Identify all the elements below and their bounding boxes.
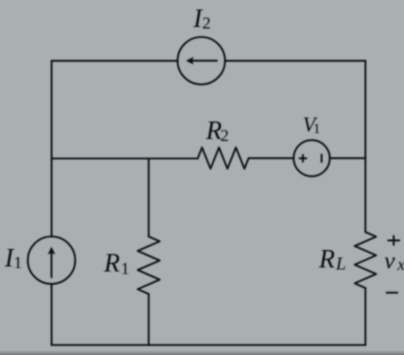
svg-text:1: 1 [121, 259, 129, 278]
wire middle-center segment [249, 157, 294, 159]
wire right upper segment [364, 61, 366, 232]
wire top-left segment [52, 60, 178, 62]
wire middle-right segment [330, 157, 366, 159]
wire top-right segment [225, 60, 365, 62]
label V1 [303, 113, 320, 138]
current source I1 [28, 237, 75, 284]
label I2 [192, 4, 210, 33]
wire bottom [52, 344, 366, 346]
resistor R2 [198, 148, 249, 169]
svg-text:v: v [384, 248, 395, 274]
svg-text:x: x [397, 255, 404, 274]
label R2 [205, 116, 229, 145]
voltage source V1 [294, 140, 330, 176]
wire right lower segment [364, 288, 366, 345]
label I1 [4, 244, 22, 273]
label RL [318, 245, 346, 274]
bottom vignette [0, 350, 404, 355]
wire middle-left segment [52, 158, 198, 160]
svg-text:L: L [335, 254, 346, 274]
wire left lower segment [51, 284, 53, 345]
resistor R1 [138, 237, 160, 295]
wire middle vertical lower segment [148, 294, 150, 345]
svg-text:2: 2 [202, 14, 211, 33]
svg-text:2: 2 [220, 126, 229, 145]
resistor RL [355, 232, 376, 288]
plus sign of vx [388, 236, 399, 245]
svg-text:R: R [103, 249, 120, 278]
current source I2 [178, 37, 225, 84]
wire left upper segment [51, 61, 53, 237]
label R1 [103, 249, 129, 279]
label vx [384, 248, 404, 274]
svg-text:1: 1 [14, 253, 23, 272]
svg-text:R: R [318, 245, 335, 274]
minus sign of vx [387, 292, 398, 294]
svg-text:1: 1 [313, 122, 320, 137]
wire middle vertical upper segment [148, 159, 150, 237]
